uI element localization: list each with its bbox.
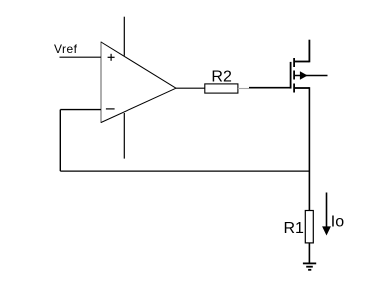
svg-text:Io: Io [331,214,344,231]
svg-text:R2: R2 [211,68,232,85]
svg-text:R1: R1 [284,220,305,237]
svg-text:Vref: Vref [54,42,78,56]
